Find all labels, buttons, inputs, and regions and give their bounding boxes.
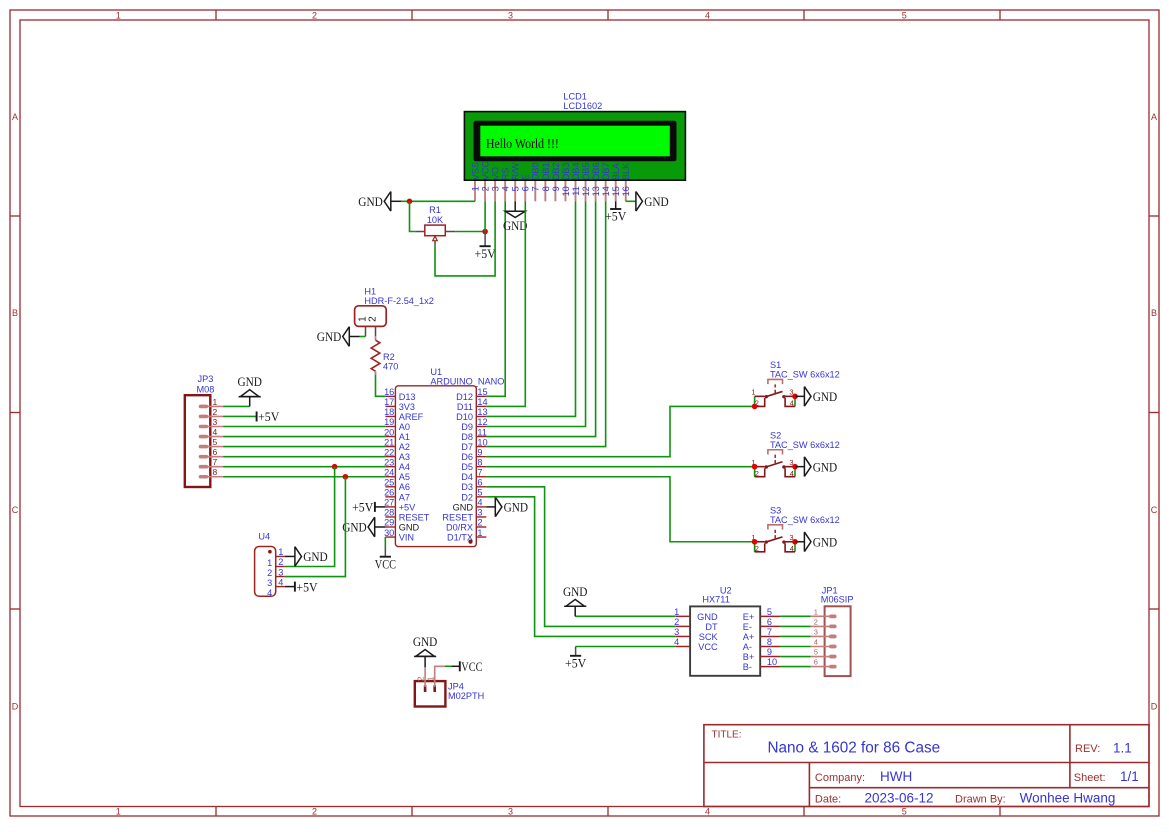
svg-text:22: 22 [384, 447, 394, 457]
svg-text:+5V: +5V [475, 246, 497, 261]
svg-text:5: 5 [902, 807, 907, 817]
svg-text:H1: H1 [364, 287, 376, 297]
switch S2 pin4 bracket [785, 468, 795, 476]
svg-text:24: 24 [384, 467, 394, 477]
svg-text:1.1: 1.1 [1113, 741, 1132, 756]
wire U1 D3 to U2 DT [486, 487, 675, 627]
svg-text:A0: A0 [399, 422, 410, 432]
connector U4 body [255, 547, 276, 597]
switch S1 wire pin3-pin4 [794, 396, 796, 406]
U1 left pin 25 stub [385, 486, 395, 488]
switch S3 pin1 stub [755, 541, 765, 543]
svg-text:8: 8 [213, 467, 218, 477]
switch S1 wire pin1-pin2 [754, 396, 756, 406]
header H1 HDR-F-2.54_1x2 [355, 306, 387, 327]
svg-text:RS: RS [501, 168, 511, 181]
LCD1 pin 3 (VO) stub [494, 181, 496, 201]
svg-text:8: 8 [767, 637, 772, 647]
svg-text:1: 1 [116, 10, 121, 20]
svg-text:4: 4 [790, 544, 794, 553]
svg-text:12: 12 [477, 417, 487, 427]
svg-text:2: 2 [278, 557, 283, 567]
resistor R1 10K potentiometer [415, 231, 425, 233]
svg-text:Nano & 1602 for 86 Case: Nano & 1602 for 86 Case [768, 740, 941, 757]
svg-text:4: 4 [278, 577, 283, 587]
svg-text:4: 4 [790, 469, 794, 478]
svg-text:19: 19 [384, 417, 394, 427]
LCD1 pin 16 (BLK) stub [625, 181, 627, 201]
wire junction down to R1 left [410, 201, 416, 231]
JP4 pin 2 stub [424, 667, 426, 687]
svg-text:GND: GND [697, 612, 718, 622]
svg-text:D0/RX: D0/RX [446, 522, 473, 532]
svg-text:2: 2 [267, 568, 272, 578]
svg-text:13: 13 [477, 407, 487, 417]
wire U1 VIN to VCC [384, 537, 386, 546]
svg-text:D5: D5 [461, 462, 473, 472]
svg-text:RESET: RESET [399, 512, 430, 522]
svg-text:1: 1 [477, 528, 482, 538]
svg-text:1: 1 [674, 607, 679, 617]
U2 pin 2 stub [676, 625, 690, 627]
power +5V at LCD BLA pin15 [615, 201, 617, 209]
JP4 pin 1 stub [435, 666, 445, 687]
svg-text:+5V: +5V [352, 500, 374, 515]
svg-text:9: 9 [477, 447, 482, 457]
svg-text:A5: A5 [399, 472, 410, 482]
svg-text:DB1: DB1 [541, 162, 551, 180]
svg-text:+5V: +5V [296, 579, 318, 594]
svg-text:M08: M08 [197, 385, 215, 395]
svg-text:7: 7 [767, 627, 772, 637]
U4 pin 1 stub [276, 555, 285, 557]
switch S2 wire pin1-pin2 [754, 467, 756, 477]
svg-text:D10: D10 [456, 412, 473, 422]
svg-text:4: 4 [477, 498, 482, 508]
svg-text:HWH: HWH [880, 769, 912, 784]
switch S3 wire pin3-pin4 [794, 542, 796, 552]
wire S2 to GND symbol [795, 466, 804, 468]
svg-text:2023-06-12: 2023-06-12 [865, 791, 934, 806]
svg-text:16: 16 [621, 186, 631, 196]
JP3 pin 2 pad [199, 415, 209, 419]
svg-text:GND: GND [563, 584, 588, 599]
U1 right pin 13 stub [476, 415, 486, 417]
svg-text:14: 14 [477, 397, 487, 407]
svg-text:BLK: BLK [621, 162, 631, 180]
JP3 pin 8 pad [199, 475, 209, 479]
U2 pin 10 stub [760, 666, 780, 668]
switch S3 pin2 bracket [755, 543, 765, 551]
svg-text:11: 11 [477, 427, 487, 437]
svg-text:4: 4 [705, 807, 710, 817]
U1 left pin 16 stub [385, 395, 395, 397]
switch S3 actuator bracket [768, 525, 783, 530]
wire U4 pin4 to +5V [285, 586, 295, 588]
svg-text:8: 8 [477, 457, 482, 467]
svg-text:D: D [1151, 702, 1158, 712]
ground GND above JP3 pin1 [237, 374, 262, 406]
U1 right pin 1 stub [476, 536, 486, 538]
U1 right pin 14 stub [476, 405, 486, 407]
LCD1 pin 8 (DB1) stub [544, 181, 546, 201]
U1 left pin 26 stub [385, 496, 395, 498]
svg-text:2: 2 [755, 544, 759, 553]
wire JP4 pin1 to VCC [445, 665, 451, 667]
svg-text:B: B [12, 308, 18, 318]
wire U2 pin10 to JP1 pin6 [780, 666, 810, 668]
LCD1 pin 2 (VCC) stub [484, 181, 486, 201]
svg-text:GND: GND [503, 218, 528, 233]
svg-text:B: B [1151, 308, 1157, 318]
svg-text:VO: VO [491, 167, 501, 180]
U2 pin 9 stub [760, 656, 780, 658]
svg-text:20: 20 [384, 427, 394, 437]
U2 pin 7 stub [760, 635, 780, 637]
switch S1 pin3 stub [784, 395, 795, 397]
svg-text:E+: E+ [743, 612, 755, 622]
svg-text:S1: S1 [770, 360, 781, 370]
svg-text:2: 2 [755, 469, 759, 478]
svg-text:A+: A+ [743, 632, 755, 642]
U1 left pin 30 stub [385, 536, 395, 538]
U2 pin 5 stub [760, 615, 780, 617]
svg-text:B-: B- [743, 662, 752, 672]
svg-text:17: 17 [384, 397, 394, 407]
wire S3 to GND symbol [795, 541, 804, 543]
svg-text:28: 28 [384, 508, 394, 518]
svg-text:1: 1 [116, 807, 121, 817]
svg-text:Sheet:: Sheet: [1074, 772, 1106, 784]
svg-text:GND: GND [303, 549, 328, 564]
svg-text:25: 25 [384, 478, 394, 488]
svg-text:27: 27 [384, 498, 394, 508]
svg-text:LCD1: LCD1 [563, 91, 587, 101]
U2 pin 6 stub [760, 625, 780, 627]
svg-text:A3: A3 [399, 452, 410, 462]
svg-text:BLA: BLA [611, 162, 621, 180]
switch S1 actuator dashed stem [774, 384, 776, 393]
wire JP3 pin5 to U1 A2 [223, 446, 385, 448]
svg-text:13: 13 [591, 186, 601, 196]
LCD1 pin 7 (DB0) stub [534, 181, 536, 201]
ground GND at U4 pin1 [295, 547, 328, 567]
ground GND down-arrow at LCD R/W pin5 [514, 201, 516, 211]
LCD1 pin 13 (DB6) stub [595, 181, 597, 201]
switch S1 pin4 bracket [785, 398, 795, 406]
svg-text:Company:: Company: [815, 772, 865, 784]
U1 right pin 8 stub [476, 466, 486, 468]
svg-text:HDR-F-2.54_1x2: HDR-F-2.54_1x2 [364, 296, 433, 306]
wire LCD DB5 to U1 D9 [486, 201, 585, 426]
svg-text:D6: D6 [461, 452, 473, 462]
switch S1 pin1 stub [755, 395, 765, 397]
power +5V at JP3 pin2 [257, 409, 280, 424]
switch S1 contact dots [765, 395, 768, 398]
switch S1 pin2 bracket [755, 398, 765, 406]
svg-text:2: 2 [213, 407, 218, 417]
connector JP1 M06SIP body [825, 606, 851, 676]
svg-text:VSS: VSS [470, 162, 480, 180]
svg-text:10: 10 [561, 186, 571, 196]
U1 pin1 marker dot [468, 540, 472, 544]
svg-text:3: 3 [267, 578, 272, 588]
svg-text:1/1: 1/1 [1120, 769, 1139, 784]
svg-text:3: 3 [508, 807, 513, 817]
svg-text:+5V: +5V [605, 209, 627, 224]
svg-text:GND: GND [644, 194, 669, 209]
U2 pin 8 stub [760, 646, 780, 648]
U2 pin 3 stub [676, 635, 690, 637]
svg-text:5: 5 [814, 648, 818, 657]
ground GND at U1 pin29 [342, 517, 375, 537]
svg-text:1: 1 [751, 387, 755, 396]
svg-text:GND: GND [358, 194, 383, 209]
svg-text:7: 7 [213, 457, 218, 467]
svg-text:DB4: DB4 [571, 162, 581, 180]
wire VSS to GND net [401, 200, 475, 202]
U1 left pin 23 stub [385, 466, 395, 468]
svg-text:470: 470 [383, 362, 398, 372]
U1 right pin 12 stub [476, 426, 486, 428]
U1 right pin 7 stub [476, 476, 486, 478]
wire LCD DB6 to U1 D8 [486, 201, 595, 436]
svg-text:5: 5 [213, 437, 218, 447]
svg-text:+5V: +5V [565, 655, 587, 670]
svg-text:1: 1 [213, 397, 218, 407]
svg-text:B+: B+ [743, 652, 755, 662]
wire LCD DB4 to U1 D10 [486, 201, 575, 416]
JP1 pin 3 stub and pad [811, 635, 831, 637]
svg-text:TITLE:: TITLE: [712, 730, 742, 741]
title block [704, 725, 1149, 807]
switch S2 actuator bracket [768, 450, 783, 455]
svg-text:3: 3 [278, 567, 283, 577]
svg-text:D2: D2 [461, 492, 473, 502]
JP1 pin 1 stub and pad [811, 615, 831, 617]
wire LCD E pin6 to U1 D11 [486, 201, 525, 406]
U1 right pin 6 stub [476, 486, 486, 488]
svg-text:2: 2 [814, 617, 818, 626]
svg-text:GND: GND [813, 389, 838, 404]
svg-text:DB5: DB5 [581, 162, 591, 180]
wire JP3 pin8 to U1 A5 [223, 476, 385, 478]
switch S2 actuator dashed stem [774, 455, 776, 464]
U1 left pin 17 stub [385, 405, 395, 407]
svg-text:GND: GND [504, 500, 528, 515]
svg-text:A4: A4 [399, 462, 410, 472]
svg-text:E: E [521, 174, 531, 180]
svg-text:JP3: JP3 [198, 374, 214, 384]
svg-text:D12: D12 [456, 392, 473, 402]
svg-text:10: 10 [767, 657, 777, 667]
svg-text:R1: R1 [429, 205, 441, 215]
wire U4 pin1 to GND [285, 555, 295, 557]
LCD1602 display U=LCD1 body [464, 112, 685, 181]
wire U2 GND pin1 to GND [575, 615, 676, 617]
U1 left pin 28 stub [385, 516, 395, 518]
switch S3 contact dots [765, 540, 768, 543]
svg-text:A: A [12, 112, 18, 122]
wire R2 to U1 D13 pin16 [376, 375, 386, 397]
svg-text:D13: D13 [399, 392, 416, 402]
svg-text:D9: D9 [461, 422, 473, 432]
power +5V below R1 [475, 232, 497, 261]
svg-text:21: 21 [384, 437, 394, 447]
U4 pin 3 stub [276, 576, 285, 578]
JP1 pin 4 stub and pad [811, 646, 831, 648]
svg-text:S2: S2 [770, 430, 781, 440]
power VCC at JP4 pin1 [460, 659, 483, 674]
svg-text:5: 5 [902, 10, 907, 20]
svg-text:6: 6 [767, 617, 772, 627]
IC U1 ARDUINO_NANO body [395, 386, 476, 547]
U1 left pin 21 stub [385, 446, 395, 448]
svg-text:R2: R2 [383, 352, 395, 362]
switch S2 pin3 stub [784, 466, 795, 468]
svg-text:D11: D11 [457, 402, 473, 412]
svg-text:12: 12 [581, 186, 591, 196]
LCD1 pin 10 (DB3) stub [564, 181, 566, 201]
svg-text:3V3: 3V3 [399, 402, 415, 412]
svg-text:1: 1 [470, 186, 480, 191]
svg-text:U4: U4 [258, 531, 270, 541]
svg-text:3: 3 [814, 627, 818, 636]
LCD1 pin 1 (VSS) stub [474, 181, 476, 201]
svg-text:7: 7 [477, 467, 482, 477]
svg-text:30: 30 [384, 528, 394, 538]
JP3 pin 4 pad [199, 435, 209, 439]
svg-text:5: 5 [767, 607, 772, 617]
svg-text:11: 11 [571, 186, 581, 196]
svg-text:JP4: JP4 [448, 681, 464, 691]
wire JP3 pin7 to U1 A4 [223, 466, 385, 468]
svg-text:DB0: DB0 [531, 162, 541, 180]
wire H1 pin1 to GND [349, 336, 360, 338]
U1 left pin 24 stub [385, 476, 395, 478]
LCD1 pin 6 (E) stub [524, 181, 526, 201]
node junction VSS/R1 net [407, 199, 413, 205]
switch S3 lever [766, 537, 782, 542]
LCD1 pin 5 (R/W) stub [514, 181, 516, 201]
node junction S1 input [752, 404, 758, 410]
node junction S3 input [752, 539, 758, 545]
svg-text:3: 3 [674, 627, 679, 637]
svg-text:15: 15 [611, 186, 621, 196]
wire JP3 pin4 to U1 A1 [223, 436, 385, 438]
LCD1 pin 4 (RS) stub [504, 181, 506, 201]
svg-text:A1: A1 [399, 432, 410, 442]
svg-text:5: 5 [511, 186, 521, 191]
svg-text:VCC: VCC [461, 659, 482, 674]
U1 left pin 22 stub [385, 456, 395, 458]
wire U2 pin9 to JP1 pin5 [780, 656, 810, 658]
svg-text:C: C [1151, 505, 1158, 515]
svg-text:A6: A6 [399, 482, 410, 492]
wire U2 pin7 to JP1 pin3 [780, 635, 810, 637]
svg-text:VCC: VCC [480, 161, 490, 181]
switch S2 contact dots [765, 465, 768, 468]
svg-text:10: 10 [477, 437, 487, 447]
svg-text:2: 2 [416, 676, 426, 681]
wire LCD BLK pin16 to GND [626, 200, 636, 202]
U1 right pin 11 stub [476, 436, 486, 438]
svg-text:A: A [1151, 112, 1157, 122]
svg-text:1: 1 [267, 558, 272, 568]
svg-text:VIN: VIN [399, 532, 414, 542]
svg-text:23: 23 [384, 457, 394, 467]
svg-text:Hello World !!!: Hello World !!! [486, 137, 559, 152]
svg-text:6: 6 [814, 658, 818, 667]
svg-text:M06SIP: M06SIP [821, 594, 854, 604]
ground GND (left of LCD, net VSS) [358, 192, 391, 212]
node junction S1 gnd side [792, 394, 798, 400]
svg-text:LCD1602: LCD1602 [563, 101, 602, 111]
svg-text:+5V: +5V [399, 502, 416, 512]
U1 left pin 27 stub [385, 506, 395, 508]
svg-text:7: 7 [531, 186, 541, 191]
JP3 pin 1 pad [199, 405, 209, 409]
JP1 pin 2 stub and pad [811, 625, 831, 627]
U1 right pin 4 stub [476, 506, 486, 508]
svg-text:3: 3 [508, 10, 513, 20]
svg-text:14: 14 [601, 186, 611, 196]
svg-text:TAC_SW 6x6x12: TAC_SW 6x6x12 [770, 370, 840, 380]
svg-text:GND: GND [237, 374, 262, 389]
svg-text:D: D [12, 702, 19, 712]
svg-text:GND: GND [399, 522, 420, 532]
svg-text:TAC_SW 6x6x12: TAC_SW 6x6x12 [770, 440, 840, 450]
switch S3 pin4 bracket [785, 543, 795, 551]
svg-text:Wonhee Hwang: Wonhee Hwang [1020, 791, 1116, 806]
wire U2 pin8 to JP1 pin4 [780, 646, 810, 648]
svg-text:4: 4 [213, 427, 218, 437]
wire LCD VCC pin2 down [484, 201, 486, 231]
wire U1 D5 to S2 [486, 466, 754, 468]
wire U2 pin6 to JP1 pin2 [780, 625, 810, 627]
svg-text:6: 6 [521, 186, 531, 191]
svg-text:4: 4 [814, 638, 818, 647]
svg-text:M02PTH: M02PTH [448, 691, 484, 701]
svg-text:5: 5 [477, 488, 482, 498]
JP1 pin 5 stub and pad [811, 656, 831, 658]
wire S1 to GND symbol [795, 395, 804, 397]
switch S1 lever [766, 391, 782, 396]
svg-text:4: 4 [705, 10, 710, 20]
svg-text:S3: S3 [770, 505, 781, 515]
svg-text:R/W: R/W [511, 162, 521, 180]
svg-text:D3: D3 [461, 482, 473, 492]
svg-text:VCC: VCC [698, 642, 718, 652]
wire U1 D4 to S3 [486, 477, 754, 542]
svg-text:VCC: VCC [375, 556, 396, 571]
JP3 pin 5 pad [199, 445, 209, 449]
svg-text:26: 26 [384, 488, 394, 498]
svg-text:4: 4 [790, 399, 794, 408]
U1 right pin 10 stub [476, 446, 486, 448]
ground GND at S3 [804, 532, 837, 552]
U2 pin 4 stub [676, 646, 690, 648]
connector JP3 M08 body [185, 395, 211, 487]
wire U1 D6 to S1 [486, 406, 754, 456]
resistor R2 470 [371, 340, 380, 371]
LCD1 pin 12 (DB5) stub [585, 181, 587, 201]
svg-text:4: 4 [674, 637, 679, 647]
svg-text:3: 3 [491, 186, 501, 191]
ground GND at U1 pin4 (right) [486, 506, 495, 508]
node junction A4 net to U4 pin3 [343, 474, 349, 480]
U1 right pin 9 stub [476, 456, 486, 458]
